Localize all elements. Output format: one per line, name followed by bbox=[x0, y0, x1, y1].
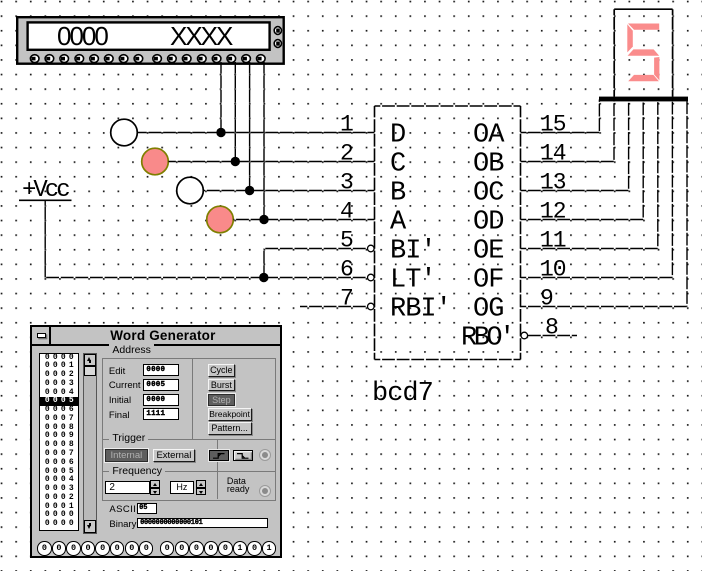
probe X4 (on, red) bbox=[207, 206, 234, 233]
svg-text:1: 1 bbox=[340, 112, 353, 138]
wire: chip pin 13 vertical run to display bbox=[628, 100, 630, 191]
wire: chip pin 10 vertical run to display bbox=[671, 100, 673, 278]
svg-text:OF: OF bbox=[473, 266, 503, 296]
panel button Burst bbox=[208, 379, 236, 391]
wire: chip pin 14 horizontal run bbox=[521, 161, 615, 163]
inverter bubble pin 6 bbox=[368, 274, 375, 281]
word generator icon side terminals (clock, trigger) bbox=[274, 27, 281, 48]
wire: chip pin 15 horizontal run bbox=[521, 132, 600, 134]
panel field Edit bbox=[109, 366, 125, 377]
svg-text:OE: OE bbox=[473, 237, 503, 267]
panel Frequency group frame bbox=[102, 471, 276, 501]
seven-segment display terminal bar bbox=[599, 97, 688, 102]
panel button Pattern... bbox=[208, 422, 252, 434]
panel trigger indicator bbox=[259, 449, 271, 461]
wire: chip pin 12 horizontal run bbox=[521, 219, 644, 221]
junction node J2 bbox=[231, 157, 240, 166]
IC U1 bcd7 decoder body bbox=[375, 106, 521, 360]
wire: branch from pin5 row down to Vcc net bbox=[263, 249, 265, 278]
wire: chip pin 11 vertical run to display bbox=[657, 100, 659, 249]
inverter bubble pin 7 bbox=[368, 303, 375, 310]
panel field Binary bbox=[137, 518, 269, 529]
svg-text:OA: OA bbox=[473, 121, 505, 151]
wire: word generator terminal 14 down to node row 2 bbox=[234, 62, 236, 162]
wire: BI&#39; pin 5 row bbox=[264, 248, 367, 250]
wire: word generator terminal 15 down to node row 3 bbox=[249, 62, 251, 191]
panel label ASCII bbox=[109, 504, 136, 515]
svg-text:D: D bbox=[390, 121, 405, 151]
wire: Vcc net to LT&#39; pin 6 bbox=[45, 277, 367, 279]
svg-text:OG: OG bbox=[473, 295, 503, 325]
wire: chip pin 10 horizontal run bbox=[521, 277, 673, 279]
svg-text:10: 10 bbox=[540, 257, 566, 283]
svg-text:LT': LT' bbox=[390, 266, 436, 296]
wire: chip pin 13 horizontal run bbox=[521, 190, 629, 192]
svg-text:4: 4 bbox=[340, 199, 353, 225]
panel button Breakpoint bbox=[208, 408, 252, 420]
svg-text:B: B bbox=[390, 179, 406, 209]
wire: chip pin 9 horizontal run bbox=[521, 306, 688, 308]
panel frequency unit field Hz bbox=[170, 481, 194, 495]
probe X1 (off, white) bbox=[111, 119, 138, 146]
junction node J4 bbox=[259, 215, 268, 224]
panel data ready indicator bbox=[259, 485, 272, 498]
panel address list bbox=[39, 353, 80, 531]
svg-text:0000: 0000 bbox=[57, 21, 108, 51]
svg-text:OB: OB bbox=[473, 150, 504, 180]
svg-text:RBI': RBI' bbox=[390, 295, 451, 325]
segment G (middle) lit bbox=[628, 49, 660, 55]
segment C (bottom-right) lit bbox=[654, 57, 659, 80]
segment A (top) lit bbox=[628, 24, 659, 30]
svg-text:7: 7 bbox=[340, 286, 353, 312]
panel field ASCII bbox=[137, 503, 157, 515]
wire: Vcc vertical segment bbox=[44, 201, 46, 278]
wire: chip pin 14 vertical run to display bbox=[613, 100, 615, 162]
wire: chip pin 15 vertical run to display bbox=[598, 100, 600, 133]
word generator icon bottom terminals 1-16 bbox=[30, 55, 265, 63]
panel field Initial bbox=[109, 395, 131, 406]
panel button External bbox=[153, 449, 195, 462]
svg-text:3: 3 bbox=[340, 170, 353, 196]
wire: word generator terminal 13 down to node row 1 bbox=[220, 62, 222, 133]
panel title bar bbox=[32, 327, 279, 345]
probe X3 (off, white) bbox=[177, 177, 204, 204]
panel list scrollbar bbox=[83, 353, 97, 534]
junction node J5 bbox=[259, 273, 268, 282]
panel Trigger group frame bbox=[102, 439, 276, 472]
wire row 1: probe to chip pin 1 bbox=[138, 132, 375, 134]
wire row 2: probe to chip pin 2 bbox=[169, 161, 375, 163]
wire: chip pin 12 vertical run to display bbox=[642, 100, 644, 220]
inverter bubble pin 8 RBO&#39; bbox=[521, 332, 528, 339]
wire: chip pin 11 horizontal run bbox=[521, 248, 658, 250]
panel button rising edge (pressed) bbox=[209, 450, 229, 462]
svg-text:15: 15 bbox=[540, 112, 566, 138]
wire row 4: probe to chip pin 4 bbox=[234, 219, 375, 221]
svg-text:OC: OC bbox=[473, 179, 504, 209]
svg-text:A: A bbox=[390, 208, 407, 238]
panel field Final bbox=[109, 410, 130, 421]
panel label Binary bbox=[109, 519, 136, 530]
segment D (bottom) lit bbox=[628, 75, 659, 81]
panel label Data ready bbox=[227, 477, 250, 493]
panel button Step (pressed) bbox=[208, 394, 236, 406]
segment F (top-left) lit bbox=[627, 24, 633, 52]
panel button Internal (pressed) bbox=[105, 449, 148, 462]
inverter bubble pin 5 bbox=[368, 245, 375, 252]
panel frequency value field bbox=[105, 481, 150, 495]
panel Address group frame bbox=[102, 358, 276, 440]
svg-text:12: 12 bbox=[540, 199, 566, 225]
panel button Cycle bbox=[208, 364, 236, 376]
probe X2 (on, red) bbox=[142, 148, 169, 175]
svg-text:8: 8 bbox=[545, 315, 558, 341]
svg-text:bcd7: bcd7 bbox=[372, 379, 433, 409]
panel field Current bbox=[109, 380, 141, 391]
power source +Vcc bbox=[19, 177, 72, 204]
word generator instrument panel window bbox=[30, 325, 281, 558]
word generator instrument icon XWG1 bbox=[17, 17, 284, 64]
junction node J3 bbox=[245, 186, 254, 195]
svg-text:11: 11 bbox=[540, 228, 566, 254]
svg-text:BI': BI' bbox=[390, 237, 436, 267]
svg-text:RBO': RBO' bbox=[461, 324, 512, 354]
junction node J1 bbox=[216, 128, 225, 137]
wire: word generator terminal 16 down to node row 4 bbox=[263, 62, 265, 220]
svg-text:9: 9 bbox=[540, 286, 553, 312]
svg-text:14: 14 bbox=[540, 141, 566, 167]
panel frequency spinner bbox=[150, 480, 161, 495]
svg-text:OD: OD bbox=[473, 208, 503, 238]
svg-text:XXXX: XXXX bbox=[170, 21, 233, 51]
svg-text:6: 6 bbox=[340, 257, 353, 283]
wire: RBI&#39; pin 7 stub bbox=[300, 306, 367, 308]
svg-text:13: 13 bbox=[540, 170, 566, 196]
wire row 3: probe to chip pin 3 bbox=[204, 190, 375, 192]
panel button falling edge bbox=[233, 450, 253, 462]
panel output terminals (16 bits) bbox=[32, 540, 279, 557]
svg-text:C: C bbox=[390, 150, 406, 180]
wire: RBO&#39; pin 8 stub bbox=[528, 335, 577, 337]
svg-text:2: 2 bbox=[340, 141, 353, 167]
seven-segment display U2 body bbox=[614, 9, 672, 97]
panel frequency unit spinner bbox=[196, 480, 207, 495]
wire: chip pin 9 vertical run to display bbox=[686, 100, 688, 307]
svg-text:5: 5 bbox=[340, 228, 353, 254]
